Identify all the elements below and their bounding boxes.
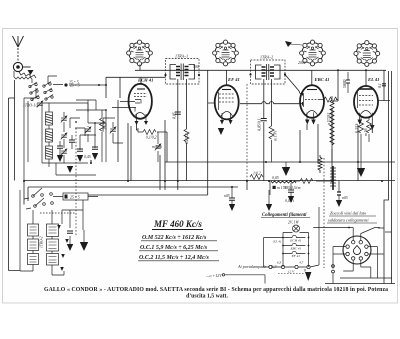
svg-text:O.C.2 11,5 Mc/s ÷ 12,4 Mc/s: O.C.2 11,5 Mc/s ÷ 12,4 Mc/s [139, 255, 209, 261]
svg-text:500: 500 [193, 65, 199, 69]
svg-text:ECH 41: ECH 41 [289, 239, 301, 243]
svg-text:500Ω: 500Ω [343, 79, 347, 88]
svg-text:m 10 k: m 10 k [152, 145, 162, 149]
svg-text:2002: 2002 [298, 61, 306, 65]
svg-text:EBC 41: EBC 41 [289, 247, 301, 251]
svg-text:d’uscita 1,5 watt.: d’uscita 1,5 watt. [186, 294, 228, 300]
svg-text:EBC 41: EBC 41 [314, 77, 330, 82]
svg-text:EF 41: EF 41 [227, 77, 240, 82]
svg-text:25 ÷ 5: 25 ÷ 5 [70, 84, 80, 88]
svg-text:EL 41: EL 41 [272, 240, 281, 244]
svg-text:12 V: 12 V [288, 270, 295, 274]
svg-text:n05: n05 [224, 194, 230, 198]
svg-text:MF 460 Kc/s: MF 460 Kc/s [153, 219, 202, 229]
svg-text:—o +12V: —o +12V [205, 273, 222, 278]
svg-text:1TRA–1: 1TRA–1 [175, 54, 188, 59]
svg-text:EL 41: EL 41 [367, 77, 379, 82]
svg-text:saldatura collegamenti: saldatura collegamenti [328, 218, 369, 223]
svg-text:ECH 41: ECH 41 [137, 78, 153, 83]
svg-text:O.C.1 5,9 Mc/s ÷ 6,25 Mc/s: O.C.1 5,9 Mc/s ÷ 6,25 Mc/s [140, 245, 208, 251]
svg-text:1TRA–2: 1TRA–2 [260, 55, 273, 60]
svg-text:GALLO « CONDOR » - AUTORADIO m: GALLO « CONDOR » - AUTORADIO mod. SAETTA… [44, 287, 388, 293]
svg-text:m 1 Ps: m 1 Ps [274, 130, 278, 141]
svg-text:O.M 522 Kc/s ÷ 1612 Kc/s: O.M 522 Kc/s ÷ 1612 Kc/s [142, 235, 207, 241]
svg-text:m 56: m 56 [364, 128, 368, 136]
svg-text:Zoccoli visti dal lato: Zoccoli visti dal lato [330, 211, 367, 216]
svg-text:25 ÷ 5: 25 ÷ 5 [70, 196, 80, 200]
svg-text:1TRO-2: 1TRO-2 [40, 236, 44, 248]
svg-text:1TRO-1/2: 1TRO-1/2 [23, 104, 38, 108]
svg-text:EF 41: EF 41 [291, 254, 301, 258]
svg-text:2/n2: 2/n2 [104, 123, 108, 130]
svg-text:n05: n05 [342, 196, 348, 200]
